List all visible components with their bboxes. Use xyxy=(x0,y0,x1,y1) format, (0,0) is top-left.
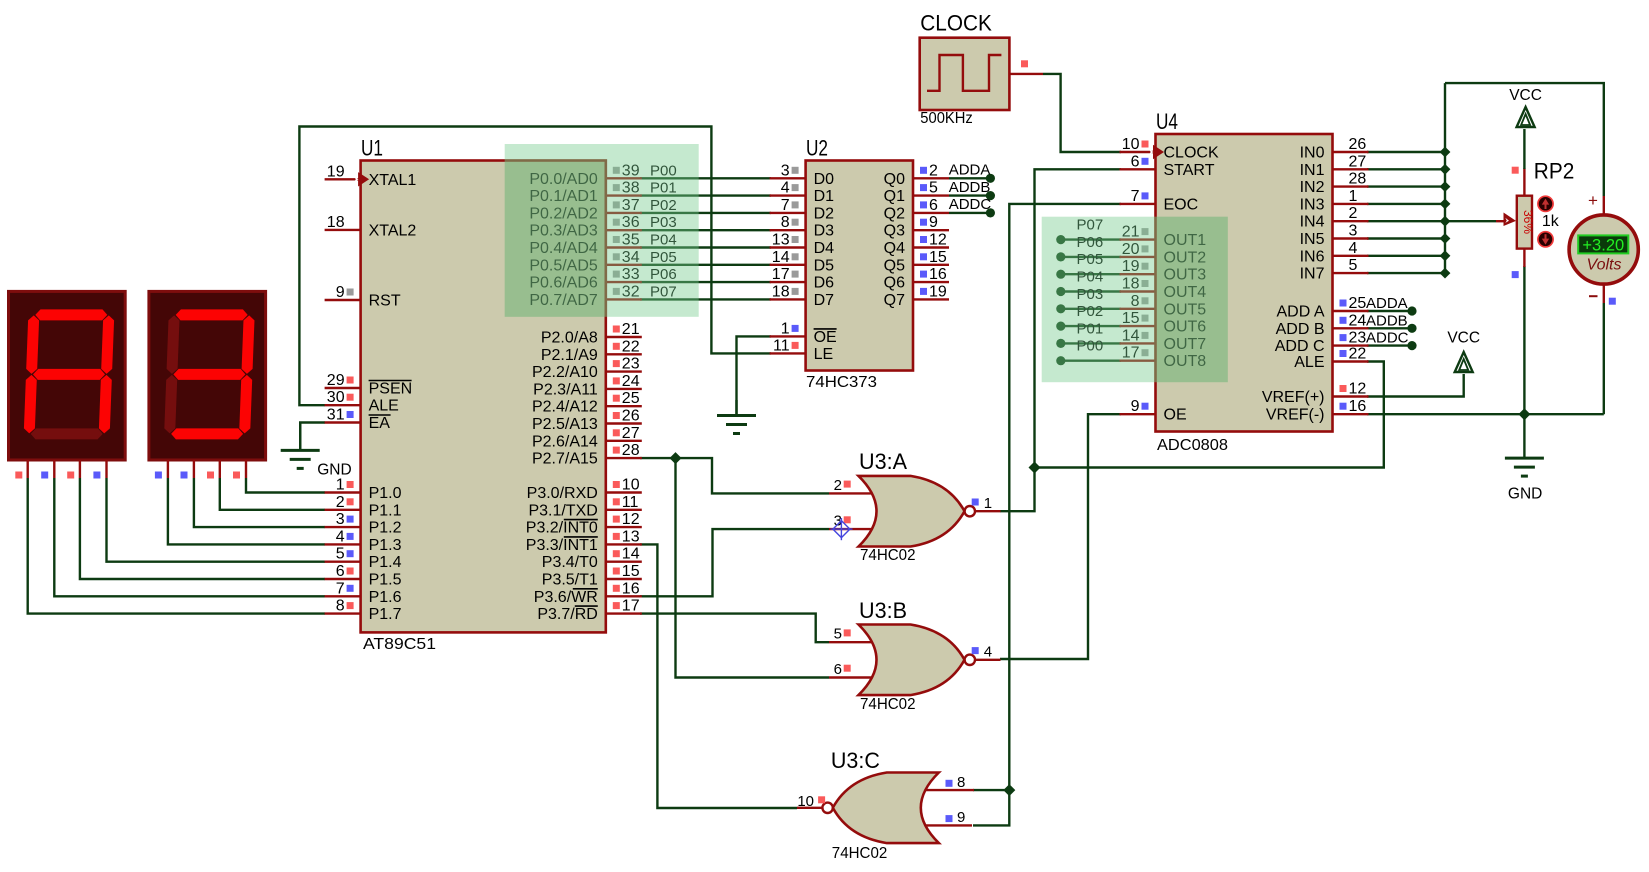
svg-text:27: 27 xyxy=(1349,153,1367,170)
svg-text:14: 14 xyxy=(772,249,790,266)
U4 pin 7 EOC xyxy=(1120,203,1156,205)
svg-text:U3:C: U3:C xyxy=(831,748,880,773)
voltmeter bottom state square xyxy=(1609,298,1616,305)
U1 pin 3 P1.2 xyxy=(325,526,361,528)
svg-text:27: 27 xyxy=(622,425,640,442)
U4 pin 20 OUT2 with net label P06 xyxy=(1120,256,1156,258)
svg-text:Q4: Q4 xyxy=(884,240,905,257)
U2 pin 19 Q7 xyxy=(913,298,949,300)
U2 pin 12 Q4 xyxy=(913,246,949,248)
svg-text:P2.6/A14: P2.6/A14 xyxy=(532,433,598,450)
U4 pin 6 START xyxy=(1120,168,1156,170)
svg-text:D1: D1 xyxy=(814,188,835,205)
voltmeter LCD readout +3.20 xyxy=(1578,235,1628,253)
U1 pin 33 P0.6/AD6 with net label P06 xyxy=(606,281,642,283)
svg-text:16: 16 xyxy=(929,266,947,283)
svg-text:P1.6: P1.6 xyxy=(369,589,402,606)
svg-text:5: 5 xyxy=(1349,257,1358,274)
wires U4 OUT1-OUT8 stubs to net terminals P00-P07 xyxy=(1061,238,1121,240)
U4 pin 10 CLOCK xyxy=(1120,151,1156,153)
svg-text:7: 7 xyxy=(781,197,790,214)
svg-text:ADD C: ADD C xyxy=(1275,338,1325,355)
svg-text:17: 17 xyxy=(772,266,790,283)
U1 pin 24 P2.3/A11 xyxy=(606,388,642,390)
svg-text:Q7: Q7 xyxy=(884,292,905,309)
svg-text:D5: D5 xyxy=(814,257,835,274)
ground symbol below RP2 / voltmeter GND xyxy=(1523,414,1525,458)
svg-text:P3.7/RD: P3.7/RD xyxy=(537,606,597,623)
svg-text:11: 11 xyxy=(622,494,639,511)
svg-text:11: 11 xyxy=(773,337,790,354)
svg-text:3: 3 xyxy=(781,162,790,179)
wire top rail to voltmeter + xyxy=(1445,83,1604,196)
U1 pin 6 P1.5 xyxy=(325,578,361,580)
7-segment display DISP1 showing A xyxy=(9,291,126,460)
U4 pin 9 OE xyxy=(1120,413,1156,415)
svg-text:16: 16 xyxy=(1349,398,1367,415)
svg-text:10: 10 xyxy=(1122,136,1140,153)
svg-text:U1: U1 xyxy=(361,136,383,161)
U4 pin 19 OUT3 with net label P05 xyxy=(1120,273,1156,275)
svg-text:U2: U2 xyxy=(806,136,828,161)
svg-text:IN2: IN2 xyxy=(1300,179,1325,196)
U1 pin 23 P2.2/A10 xyxy=(606,370,642,372)
selection origin marker at U3:A pin 3 xyxy=(830,518,852,540)
svg-text:CLOCK: CLOCK xyxy=(1164,145,1219,162)
svg-text:P3.0/RXD: P3.0/RXD xyxy=(527,485,598,502)
svg-text:1k: 1k xyxy=(1542,213,1560,230)
svg-text:13: 13 xyxy=(622,528,640,545)
U2 pin 15 Q5 xyxy=(913,264,949,266)
U1 pin 38 P0.1/AD1 with net label P01 xyxy=(606,194,642,196)
wire U4 EOC pin7 down to U3:C inputs xyxy=(973,204,1121,826)
U2 pin 11 LE xyxy=(770,352,806,354)
wire U3:C pin8 branch xyxy=(973,789,1009,791)
svg-text:D7: D7 xyxy=(814,292,835,309)
svg-text:9: 9 xyxy=(929,214,938,231)
svg-text:ADDA: ADDA xyxy=(949,162,991,179)
U4 pin 15 OUT6 with net label P02 xyxy=(1120,325,1156,327)
svg-text:VCC: VCC xyxy=(1509,87,1542,104)
svg-text:ADDC: ADDC xyxy=(949,196,992,213)
svg-text:D4: D4 xyxy=(814,240,835,257)
U4 pin 27 IN1 xyxy=(1333,168,1369,170)
microcontroller U1 AT89C51 body xyxy=(361,161,606,633)
svg-text:19: 19 xyxy=(929,283,947,300)
U1 pin 8 P1.7 xyxy=(325,612,361,614)
wire U3:A output pin1 up to U4 START pin6 xyxy=(1000,169,1121,511)
U4 pin 16 VREF(-) xyxy=(1333,413,1369,415)
wire ALE net: U1 ALE pin30 up-over to U2 LE pin11 xyxy=(299,127,771,406)
svg-text:Q2: Q2 xyxy=(884,205,905,222)
U3:A pin 1 xyxy=(972,499,979,506)
U2 pin 14 D5 xyxy=(770,264,806,266)
wire EA pin31 to ground xyxy=(300,423,325,451)
svg-text:25: 25 xyxy=(1349,295,1367,312)
svg-text:5: 5 xyxy=(929,180,938,197)
U2 pin 1 OE xyxy=(770,335,806,337)
svg-text:VREF(-): VREF(-) xyxy=(1266,407,1325,424)
potentiometer RP2 1k xyxy=(1523,168,1525,196)
wire U2 OE pin1 to ground xyxy=(737,336,772,415)
wire RP2 bottom to GND rail xyxy=(1523,266,1525,414)
svg-text:+: + xyxy=(1588,191,1598,210)
U2 pin 4 D1 xyxy=(770,194,806,196)
svg-text:P1.5: P1.5 xyxy=(369,572,402,589)
svg-text:P1.1: P1.1 xyxy=(369,502,402,519)
wire START net branch to U4 ALE pin22 xyxy=(1035,362,1384,468)
U1 pin 37 P0.2/AD2 with net label P02 xyxy=(606,212,642,214)
svg-text:GND: GND xyxy=(1508,485,1542,502)
U1 pin 27 P2.6/A14 xyxy=(606,440,642,442)
U4 pin 17 OUT8 with net label P00 xyxy=(1120,360,1156,362)
U1 pin 28 P2.7/A15 xyxy=(606,457,642,459)
selection highlight over U1 P0 port xyxy=(505,144,699,317)
U1 pin 11 P3.1/TXD xyxy=(606,509,642,511)
svg-text:6: 6 xyxy=(1131,153,1140,170)
junction START/ALE node xyxy=(1029,462,1041,474)
svg-text:ADD A: ADD A xyxy=(1276,304,1324,321)
U1 pin 5 P1.4 xyxy=(325,561,361,563)
svg-text:19: 19 xyxy=(327,163,345,180)
svg-text:24: 24 xyxy=(622,373,640,390)
svg-text:5: 5 xyxy=(336,546,345,563)
svg-text:P2.1/A9: P2.1/A9 xyxy=(541,347,598,364)
svg-text:500KHz: 500KHz xyxy=(920,110,973,127)
svg-text:28: 28 xyxy=(1349,171,1367,188)
svg-text:25: 25 xyxy=(622,390,640,407)
svg-text:26: 26 xyxy=(622,408,640,425)
U1 pin 17 P3.7/RD xyxy=(606,612,642,614)
CLOCK output pin xyxy=(1009,73,1043,75)
svg-text:31: 31 xyxy=(327,407,345,424)
svg-text:U4: U4 xyxy=(1156,109,1178,134)
svg-text:9: 9 xyxy=(957,809,965,826)
svg-text:74HC02: 74HC02 xyxy=(860,547,916,564)
svg-text:6: 6 xyxy=(336,563,345,580)
svg-text:OE: OE xyxy=(814,329,837,346)
wire P3.3/INT1 pin13 to U3:C output pin10 xyxy=(640,544,797,808)
svg-text:6: 6 xyxy=(929,197,938,214)
U2 pin 6 Q2 xyxy=(913,212,949,214)
svg-text:8: 8 xyxy=(957,774,965,791)
svg-text:P3.3/INT1: P3.3/INT1 xyxy=(526,537,598,554)
svg-text:P3.5/T1: P3.5/T1 xyxy=(542,572,598,589)
svg-text:ADDC: ADDC xyxy=(1366,330,1409,347)
svg-text:CLOCK: CLOCK xyxy=(920,10,992,35)
U1 pin 21 P2.0/A8 xyxy=(606,336,642,338)
svg-text:23: 23 xyxy=(1349,330,1367,347)
svg-text:ADC0808: ADC0808 xyxy=(1157,437,1228,454)
U2 pin 17 D6 xyxy=(770,281,806,283)
svg-text:3: 3 xyxy=(1349,223,1358,240)
svg-text:IN5: IN5 xyxy=(1300,231,1325,248)
RP2 wiper arrow xyxy=(1496,220,1506,222)
svg-text:P2.0/A8: P2.0/A8 xyxy=(541,330,598,347)
wire U3:B output pin4 to U4 OE pin9 xyxy=(1000,414,1121,659)
wire CLOCK source to U4 CLOCK pin10 xyxy=(1043,74,1121,152)
svg-text:Q3: Q3 xyxy=(884,223,905,240)
svg-text:P3.1/TXD: P3.1/TXD xyxy=(528,502,597,519)
svg-text:EA: EA xyxy=(369,415,391,432)
svg-text:10: 10 xyxy=(622,477,640,494)
svg-text:D0: D0 xyxy=(814,171,835,188)
svg-text:D6: D6 xyxy=(814,275,835,292)
svg-text:START: START xyxy=(1164,162,1215,179)
svg-text:22: 22 xyxy=(622,338,640,355)
selection highlight over U4 OUT port xyxy=(1042,217,1228,383)
svg-text:7: 7 xyxy=(1131,188,1140,205)
svg-text:15: 15 xyxy=(929,249,947,266)
U1 pin 34 P0.5/AD5 with net label P05 xyxy=(606,264,642,266)
NOR gate U3:A 74HC02 xyxy=(829,492,872,494)
wire node P2.7/A15 pin28 to U3:A pin2 xyxy=(640,458,829,493)
svg-text:26: 26 xyxy=(1349,136,1367,153)
svg-text:10: 10 xyxy=(797,793,814,810)
svg-text:Volts: Volts xyxy=(1587,256,1622,273)
clock generator CLOCK 500KHz xyxy=(920,38,1010,110)
U4 pin 4 IN6 xyxy=(1333,255,1369,257)
svg-text:OE: OE xyxy=(1164,407,1187,424)
U1 pin 9 RST xyxy=(325,299,361,301)
svg-text:4: 4 xyxy=(1349,240,1358,257)
junction EOC / U3:C pin8 xyxy=(1003,784,1015,796)
U4 pin 18 OUT4 with net label P04 xyxy=(1120,290,1156,292)
svg-text:XTAL2: XTAL2 xyxy=(369,222,417,239)
U4 pin 14 OUT7 with net label P01 xyxy=(1120,342,1156,344)
U2 pin 3 D0 xyxy=(770,177,806,179)
latch U2 74HC373 body xyxy=(806,161,913,371)
VCC power symbol above RP2 xyxy=(1517,107,1535,127)
svg-text:Q6: Q6 xyxy=(884,275,905,292)
U1 pin 16 P3.6/WR xyxy=(606,595,642,597)
RP2 decrement button xyxy=(1538,232,1553,247)
svg-text:XTAL1: XTAL1 xyxy=(369,172,417,189)
svg-text:IN7: IN7 xyxy=(1300,266,1325,283)
svg-text:15: 15 xyxy=(622,563,640,580)
U2 pin 18 D7 xyxy=(770,298,806,300)
svg-text:2: 2 xyxy=(1349,205,1358,222)
svg-text:9: 9 xyxy=(336,284,345,301)
U1 pin 15 P3.5/T1 xyxy=(606,578,642,580)
svg-text:ADDB: ADDB xyxy=(1366,312,1408,329)
DISP2 pins xyxy=(167,460,169,478)
U1 pin 13 P3.3/INT1 xyxy=(606,543,642,545)
U2 pin 9 Q3 xyxy=(913,229,949,231)
U1 pin 4 P1.3 xyxy=(325,543,361,545)
U1 pin 36 P0.3/AD3 with net label P03 xyxy=(606,229,642,231)
U1 pin 30 ALE xyxy=(325,404,361,406)
svg-text:EOC: EOC xyxy=(1164,196,1199,213)
svg-text:VCC: VCC xyxy=(1447,330,1480,347)
svg-text:P2.3/A11: P2.3/A11 xyxy=(533,381,598,398)
svg-text:2: 2 xyxy=(929,162,938,179)
svg-text:P2.2/A10: P2.2/A10 xyxy=(532,364,598,381)
wire voltmeter - down xyxy=(1603,303,1605,414)
svg-text:PSEN: PSEN xyxy=(369,381,413,398)
svg-text:7: 7 xyxy=(336,580,345,597)
U1 pin 2 P1.1 xyxy=(325,509,361,511)
svg-text:Q0: Q0 xyxy=(884,171,905,188)
U1 pin 22 P2.1/A9 xyxy=(606,353,642,355)
U2 pin 8 D3 xyxy=(770,229,806,231)
svg-text:ADDA: ADDA xyxy=(1366,295,1408,312)
U1 pin 39 P0.0/AD0 with net label P00 xyxy=(606,177,642,179)
junction P2.7 node xyxy=(670,452,682,464)
svg-text:ADD B: ADD B xyxy=(1276,321,1325,338)
svg-text:2: 2 xyxy=(336,494,345,511)
svg-text:1: 1 xyxy=(1349,188,1358,205)
U4 pin 22 ALE xyxy=(1333,360,1369,362)
7-segment display DISP2 showing 3 xyxy=(149,291,266,460)
svg-text:Q5: Q5 xyxy=(884,257,905,274)
U1 pin 32 P0.7/AD7 with net label P07 xyxy=(606,298,642,300)
U1 pin 7 P1.6 xyxy=(325,595,361,597)
svg-text:ALE: ALE xyxy=(369,398,399,415)
U1 pin 31 EA xyxy=(325,421,361,423)
U4 pin 21 OUT1 with net label P07 xyxy=(1120,238,1156,240)
U1 pin 18 XTAL2 xyxy=(325,229,361,231)
voltmeter - terminal label xyxy=(1589,295,1598,297)
U2 pin 7 D2 xyxy=(770,212,806,214)
U1 pin 26 P2.5/A13 xyxy=(606,422,642,424)
U3:B pin 4 xyxy=(972,647,979,654)
U2 pin 16 Q6 xyxy=(913,281,949,283)
U1 pin 12 P3.2/INT0 xyxy=(606,526,642,528)
svg-text:74HC02: 74HC02 xyxy=(860,696,916,713)
U2 pin 2 Q0 xyxy=(913,177,949,179)
voltmeter (Volts) body xyxy=(1603,196,1605,216)
svg-text:P1.7: P1.7 xyxy=(369,606,402,623)
svg-text:LE: LE xyxy=(814,346,834,363)
svg-text:P2.7/A15: P2.7/A15 xyxy=(532,451,598,468)
wires 7-segment displays to U1 P1.0-P1.7 xyxy=(246,478,325,493)
svg-text:P1.4: P1.4 xyxy=(369,554,402,571)
svg-text:12: 12 xyxy=(929,232,947,249)
svg-text:Q1: Q1 xyxy=(884,188,905,205)
wires U2 Q0-Q2 to net terminals ADDA/ADDB/ADDC xyxy=(949,177,990,179)
U4 pin 8 OUT5 with net label P03 xyxy=(1120,308,1156,310)
U4 pin 24 ADD B with net label ADDB xyxy=(1333,327,1369,329)
svg-text:22: 22 xyxy=(1349,346,1367,363)
svg-text:U3:A: U3:A xyxy=(859,449,907,474)
junction VREF(-) / RP2 / GND node xyxy=(1518,408,1530,420)
svg-text:16: 16 xyxy=(622,580,640,597)
wire VCC rail column vertical xyxy=(1444,83,1446,273)
svg-text:18: 18 xyxy=(772,283,790,300)
svg-text:U3:B: U3:B xyxy=(859,598,907,623)
svg-text:2: 2 xyxy=(834,477,842,494)
svg-text:4: 4 xyxy=(336,528,345,545)
svg-text:IN0: IN0 xyxy=(1300,145,1325,162)
svg-text:P2.5/A13: P2.5/A13 xyxy=(532,416,598,433)
svg-text:IN3: IN3 xyxy=(1300,196,1325,213)
svg-text:RST: RST xyxy=(369,293,401,310)
svg-text:6: 6 xyxy=(834,661,842,678)
NOR gate U3:C 74HC02 (mirrored) xyxy=(924,789,975,791)
wire node P2.7 branch to U3:B pin6 xyxy=(676,458,830,677)
U1 pin 25 P2.4/A12 xyxy=(606,405,642,407)
VCC power symbol at VREF(+) xyxy=(1455,352,1473,372)
svg-text:36%: 36% xyxy=(1521,210,1535,234)
U4 pin 25 ADD A with net label ADDA xyxy=(1333,310,1369,312)
DISP1 pins xyxy=(27,460,29,478)
svg-text:P1.0: P1.0 xyxy=(369,485,402,502)
wire wiper of RP2 from rail column xyxy=(1445,220,1496,222)
svg-text:23: 23 xyxy=(622,356,640,373)
ADC U4 ADC0808 body xyxy=(1156,134,1333,432)
U4 pin 23 ADD C with net label ADDC xyxy=(1333,344,1369,346)
U4 pin 26 IN0 xyxy=(1333,151,1369,153)
svg-text:17: 17 xyxy=(622,598,640,615)
RP2 top state square xyxy=(1512,167,1519,174)
wire P3.6/WR pin16 to U3:A pin3 xyxy=(640,529,829,596)
wires U4 IN0-IN7 to VCC rail column xyxy=(1367,151,1445,153)
svg-text:12: 12 xyxy=(622,511,640,528)
svg-text:GND: GND xyxy=(317,462,351,479)
NOR gate U3:B 74HC02 xyxy=(829,641,872,643)
svg-text:13: 13 xyxy=(772,232,790,249)
svg-text:ALE: ALE xyxy=(1294,354,1324,371)
ground symbol below U1 EA xyxy=(299,423,301,451)
svg-text:1: 1 xyxy=(984,495,992,512)
svg-text:8: 8 xyxy=(336,598,345,615)
svg-text:ADDB: ADDB xyxy=(949,179,991,196)
svg-text:AT89C51: AT89C51 xyxy=(363,636,436,653)
wire P3.7/RD pin17 to U3:B pin5 xyxy=(640,614,829,643)
svg-text:VREF(+): VREF(+) xyxy=(1262,389,1325,406)
svg-text:5: 5 xyxy=(834,626,842,643)
svg-text:74HC373: 74HC373 xyxy=(806,374,877,391)
svg-text:D2: D2 xyxy=(814,205,835,222)
svg-text:P2.4/A12: P2.4/A12 xyxy=(532,399,598,416)
svg-text:4: 4 xyxy=(984,643,992,660)
svg-text:P3.4/T0: P3.4/T0 xyxy=(542,554,598,571)
svg-text:14: 14 xyxy=(622,546,640,563)
U2 pin 5 Q1 xyxy=(913,194,949,196)
U1 pin 29 PSEN xyxy=(325,387,361,389)
svg-text:30: 30 xyxy=(327,389,345,406)
U1 pin 14 P3.4/T0 xyxy=(606,561,642,563)
U4 pin 12 VREF(+) xyxy=(1333,395,1369,397)
U1 pin 1 P1.0 xyxy=(325,491,361,493)
svg-text:D3: D3 xyxy=(814,223,835,240)
U4 pin 5 IN7 xyxy=(1333,272,1369,274)
svg-text:1: 1 xyxy=(781,320,790,337)
svg-text:P1.2: P1.2 xyxy=(369,520,402,537)
svg-text:12: 12 xyxy=(1349,381,1367,398)
svg-text:24: 24 xyxy=(1349,312,1367,329)
RP2 increment button xyxy=(1538,196,1553,211)
svg-text:8: 8 xyxy=(781,214,790,231)
U4 pin 28 IN2 xyxy=(1333,185,1369,187)
RP2 bottom state square xyxy=(1512,271,1519,278)
svg-text:74HC02: 74HC02 xyxy=(832,845,888,862)
wires U4 ADD A/B/C to net terminals ADDA/ADDB/ADDC xyxy=(1367,310,1412,312)
U3:C pin 8 xyxy=(946,780,953,787)
svg-text:9: 9 xyxy=(1131,398,1140,415)
wire U4 VREF(+) pin12 to VCC symbol xyxy=(1367,374,1464,397)
svg-text:IN6: IN6 xyxy=(1300,248,1325,265)
svg-text:1: 1 xyxy=(336,477,345,494)
U4 pin 3 IN5 xyxy=(1333,237,1369,239)
svg-text:P1.3: P1.3 xyxy=(369,537,402,554)
svg-text:29: 29 xyxy=(327,372,345,389)
svg-text:4: 4 xyxy=(781,180,790,197)
svg-text:IN1: IN1 xyxy=(1300,162,1325,179)
U1 pin 35 P0.4/AD4 with net label P04 xyxy=(606,246,642,248)
U2 pin 13 D4 xyxy=(770,246,806,248)
